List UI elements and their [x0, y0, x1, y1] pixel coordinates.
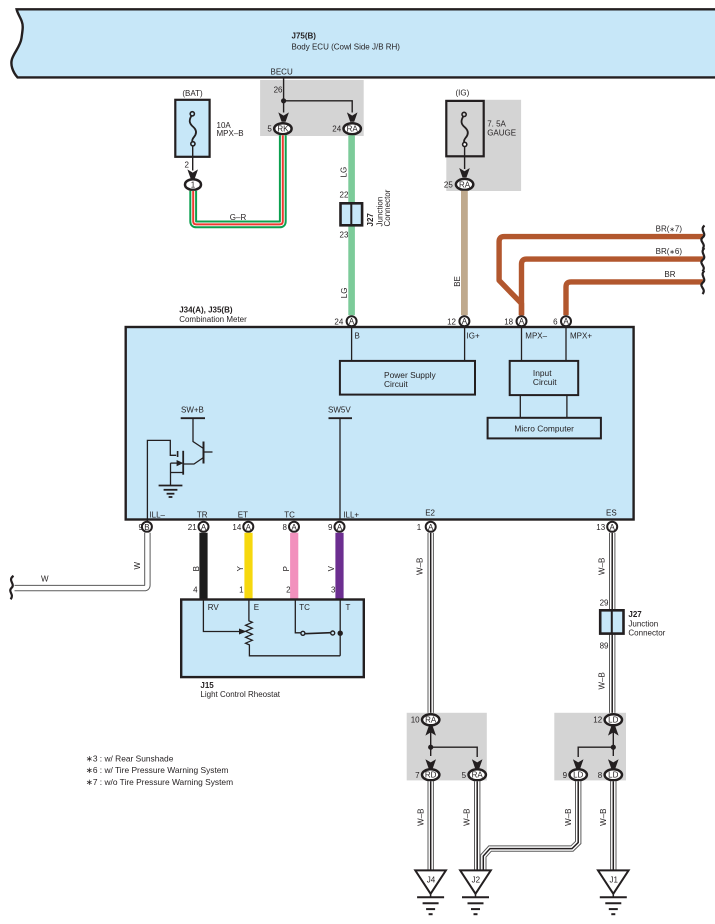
svg-text:A: A [563, 317, 569, 326]
wire 10RA to junction dot [430, 732, 432, 756]
svg-text:MPX–: MPX– [525, 331, 547, 340]
connector shade box (RA/RD/RA left) [407, 713, 487, 781]
svg-text:W–B: W–B [598, 558, 607, 575]
wire branch to 24 RA [284, 101, 353, 113]
svg-text:J34(A), J35(B): J34(A), J35(B) [179, 305, 233, 314]
switch contact circle T [331, 631, 335, 635]
svg-text:RA: RA [347, 125, 359, 134]
svg-text:1: 1 [239, 585, 244, 594]
arrow up into 12 LD [608, 726, 619, 735]
wire G-R from connector 1 to pin 5 RK [193, 135, 283, 224]
arrow up into 10 RA [425, 726, 436, 735]
svg-text:6: 6 [553, 317, 558, 326]
rheostat resistor zigzag [246, 600, 341, 656]
wire break squiggle BR [701, 271, 704, 294]
svg-text:5: 5 [267, 125, 272, 134]
wire LG from 24 RA to meter pin 24 [348, 135, 355, 315]
svg-text:MPX+: MPX+ [570, 331, 592, 340]
wire break squiggle BR(*6) [701, 248, 704, 271]
svg-text:MPX–B: MPX–B [217, 129, 244, 138]
wire BR [566, 282, 703, 315]
wire 12LD to junction dot [612, 732, 614, 756]
svg-text:9: 9 [139, 523, 144, 532]
pin 13 A (ES) [607, 522, 617, 532]
pin ellipse 5 RA [469, 769, 486, 780]
svg-text:E: E [254, 603, 259, 612]
MOSFET gate lead from ILL- [147, 440, 176, 521]
micro computer box [488, 418, 601, 439]
fuse box 7.5A GAUGE [446, 101, 483, 156]
svg-text:W–B: W–B [417, 809, 426, 826]
svg-text:12: 12 [447, 317, 456, 326]
ground J2 [460, 870, 491, 893]
junction dot right [611, 745, 616, 750]
wire Y from ET pin to J15 [244, 533, 252, 599]
connector shade box (LD right) [554, 713, 626, 781]
svg-text:∗6 : w/ Tire Pressure Warning: ∗6 : w/ Tire Pressure Warning System [86, 765, 229, 775]
svg-text:13: 13 [596, 523, 605, 532]
wire W from ILL- pin to left break [15, 533, 148, 588]
wire break squiggle BR(*7) [701, 226, 704, 249]
wire W-B 9LD jog to ground J2 [483, 781, 578, 870]
wire T vertical [339, 600, 341, 656]
pin 9 B (ILL-) [142, 522, 152, 532]
wire W-B from E2 pin to 10 RA [428, 533, 434, 713]
svg-text:A: A [462, 317, 468, 326]
svg-text:TR: TR [197, 511, 208, 520]
arrow into ellipse 1 [187, 169, 198, 178]
arrow into 5 RK [278, 112, 289, 121]
junction dot [281, 98, 286, 103]
svg-text:18: 18 [504, 317, 513, 326]
wire RV to wiper arrow [203, 600, 239, 632]
svg-text:B: B [144, 523, 149, 532]
pin ellipse 9 LD [570, 769, 587, 780]
arrow into 24 RA [347, 112, 358, 121]
svg-text:V: V [327, 565, 336, 571]
svg-text:LD: LD [573, 771, 583, 780]
switch contact circle TC [301, 631, 305, 635]
wire BECU vertical from band to junction [283, 78, 285, 112]
svg-text:RA: RA [425, 716, 437, 725]
svg-text:J27: J27 [366, 213, 375, 227]
svg-text:BR(∗7): BR(∗7) [656, 224, 683, 233]
svg-text:Light Control Rheostat: Light Control Rheostat [200, 690, 280, 699]
connector shade box (J75 pins RK/RA) [260, 80, 364, 136]
power supply circuit box [340, 361, 475, 395]
svg-text:(IG): (IG) [456, 89, 470, 98]
svg-text:2: 2 [185, 161, 190, 170]
svg-text:Circuit: Circuit [533, 377, 557, 387]
arrow down into 7 RD [425, 759, 436, 768]
svg-text:26: 26 [274, 85, 283, 94]
wire fuse to connector 1 [192, 146, 194, 171]
svg-text:J1: J1 [609, 876, 618, 885]
svg-text:29: 29 [600, 598, 609, 607]
svg-text:2: 2 [286, 585, 291, 594]
wire branch to 9 LD [578, 747, 613, 757]
svg-text:ES: ES [606, 509, 617, 518]
svg-text:A: A [349, 317, 355, 326]
svg-text:(BAT): (BAT) [182, 89, 203, 98]
svg-text:Y: Y [236, 565, 245, 571]
svg-text:A: A [428, 523, 434, 532]
svg-text:W: W [41, 575, 49, 584]
svg-text:1: 1 [191, 181, 196, 190]
svg-text:W–B: W–B [462, 809, 471, 826]
svg-text:22: 22 [340, 190, 349, 199]
arrow down into 8 LD [608, 759, 619, 768]
svg-text:7. 5A: 7. 5A [487, 120, 506, 129]
pin 14 A (ET) [243, 522, 253, 532]
svg-text:21: 21 [188, 523, 197, 532]
arrow into 25 RA [459, 168, 470, 177]
svg-text:14: 14 [232, 523, 241, 532]
svg-text:8: 8 [283, 523, 288, 532]
pin 1 A (E2) [426, 522, 436, 532]
wire W-B from ES pin down [609, 533, 615, 713]
svg-text:J27: J27 [628, 610, 642, 619]
svg-text:A: A [337, 523, 343, 532]
svg-text:LD: LD [608, 716, 618, 725]
svg-text:W–B: W–B [598, 672, 607, 689]
transistor Q (output) [203, 442, 205, 464]
svg-text:Combination Meter: Combination Meter [179, 315, 247, 324]
svg-text:RA: RA [459, 180, 471, 189]
svg-text:A: A [246, 523, 252, 532]
ground J1 [598, 870, 629, 893]
svg-text:24: 24 [332, 125, 341, 134]
ground J4 [415, 870, 446, 893]
fuse 10A MPX-B symbol [190, 112, 194, 116]
wire B from TR pin to J15 [199, 533, 207, 599]
pin ellipse 7 RD [422, 769, 439, 780]
svg-text:Circuit: Circuit [384, 379, 408, 389]
svg-text:RV: RV [208, 603, 220, 612]
wire SW5V to ILL+ pin [339, 418, 341, 519]
svg-text:BR: BR [664, 270, 675, 279]
wire TC to switch contact [295, 600, 301, 633]
svg-text:12: 12 [593, 716, 602, 725]
svg-text:RD: RD [425, 771, 437, 780]
svg-text:J4: J4 [427, 876, 436, 885]
svg-text:∗7 : w/o Tire Pressure Warning: ∗7 : w/o Tire Pressure Warning System [86, 777, 233, 787]
svg-text:B: B [355, 331, 360, 340]
svg-text:3: 3 [331, 585, 336, 594]
pin 8 A (TC) [289, 522, 299, 532]
svg-text:Connector: Connector [628, 628, 665, 637]
junction dot on T line [338, 631, 343, 636]
wire input circuit to micro computer right [566, 395, 568, 418]
wire BR(*7) [499, 237, 703, 316]
svg-text:A: A [291, 523, 297, 532]
svg-text:BECU: BECU [271, 68, 293, 77]
fuse symbol [462, 112, 466, 116]
ground (internal) [159, 485, 183, 487]
connector ellipse 1 [185, 179, 201, 190]
pin ellipse 8 LD [605, 769, 622, 780]
svg-text:Connector: Connector [383, 189, 392, 226]
pin ellipse RA (25) [456, 179, 473, 190]
pin ellipse RA [344, 123, 361, 134]
svg-text:TC: TC [299, 603, 310, 612]
wire fuse to 25 RA [464, 147, 466, 169]
svg-text:9: 9 [328, 523, 333, 532]
MOSFET symbol [177, 451, 179, 457]
svg-text:G–R: G–R [230, 213, 247, 222]
wire SW+B to transistor [193, 418, 204, 448]
svg-text:24: 24 [334, 317, 343, 326]
svg-text:Junction: Junction [628, 619, 658, 628]
svg-text:10: 10 [411, 716, 420, 725]
input circuit box [510, 361, 579, 395]
svg-text:J2: J2 [472, 876, 481, 885]
svg-text:B: B [192, 566, 201, 571]
pin 9 A (ILL+) [335, 522, 345, 532]
wire BR(*6) [522, 259, 704, 315]
junction connector J27 (22/23) [341, 203, 363, 225]
svg-text:A: A [201, 523, 207, 532]
wire W-B 5RA to ground J2 [474, 781, 480, 870]
svg-text:LG: LG [340, 167, 349, 178]
svg-text:ET: ET [238, 511, 248, 520]
svg-text:8: 8 [598, 771, 603, 780]
svg-text:W–B: W–B [416, 558, 425, 575]
svg-text:P: P [282, 566, 291, 571]
svg-text:89: 89 [600, 642, 609, 651]
svg-text:A: A [610, 523, 616, 532]
junction dot left [428, 745, 433, 750]
svg-text:E2: E2 [425, 509, 435, 518]
svg-text:W: W [133, 562, 142, 570]
wire P from TC pin to J15 [290, 533, 298, 599]
svg-text:A: A [519, 317, 525, 326]
wire break squiggle W [10, 576, 13, 600]
switch blade [305, 633, 331, 634]
wire branch to 5 RA [431, 747, 478, 757]
svg-text:SW5V: SW5V [328, 406, 351, 415]
wire pin24 to power supply circuit [351, 327, 353, 361]
wire input circuit to micro computer left [519, 395, 521, 418]
arrow down into 5 RA [472, 759, 483, 768]
fuse shade box (IG) [446, 100, 521, 191]
svg-text:LD: LD [608, 771, 618, 780]
svg-text:J75(B): J75(B) [292, 32, 317, 41]
svg-text:T: T [346, 603, 351, 612]
svg-text:BE: BE [453, 276, 462, 287]
svg-text:Body ECU (Cowl Side J/B RH): Body ECU (Cowl Side J/B RH) [292, 43, 401, 52]
wire W-B 7RD to ground J4 [428, 781, 434, 870]
svg-text:1: 1 [417, 523, 422, 532]
svg-text:23: 23 [340, 231, 349, 240]
svg-text:BR(∗6): BR(∗6) [656, 247, 683, 256]
svg-text:J15: J15 [200, 681, 214, 690]
svg-text:IG+: IG+ [467, 331, 480, 340]
pin 21 A (TR) [199, 522, 209, 532]
pin ellipse 10 RA [422, 714, 439, 725]
wire BE from 25 RA to meter pin 12 [461, 191, 468, 315]
svg-text:7: 7 [415, 771, 420, 780]
svg-text:4: 4 [193, 585, 198, 594]
svg-text:W–B: W–B [564, 809, 573, 826]
svg-text:RK: RK [277, 125, 289, 134]
wire pin6 to input circuit [565, 327, 567, 361]
svg-text:ILL+: ILL+ [343, 511, 359, 520]
wiper arrow into rheostat [239, 629, 247, 635]
arrow down into 9 LD [573, 759, 584, 768]
wire V from ILL+ pin to J15 [335, 533, 343, 599]
svg-text:LG: LG [340, 288, 349, 299]
wire pin18 to input circuit [521, 327, 523, 361]
svg-text:TC: TC [284, 511, 295, 520]
svg-text:5: 5 [462, 771, 467, 780]
svg-text:25: 25 [444, 181, 453, 190]
svg-text:SW+B: SW+B [181, 406, 204, 415]
bus band J75(B) Body ECU (Cowl Side J/B RH) [11, 9, 715, 77]
pin ellipse 12 LD [605, 714, 622, 725]
pin ellipse RK [274, 123, 291, 134]
light control rheostat J15 box [181, 600, 364, 678]
wire pin12 to power supply circuit [464, 327, 466, 361]
svg-text:RA: RA [472, 771, 484, 780]
svg-text:9: 9 [563, 771, 568, 780]
svg-text:Micro Computer: Micro Computer [514, 424, 574, 434]
svg-text:ILL–: ILL– [149, 511, 165, 520]
junction connector J27 (29/89) [600, 610, 623, 633]
wire W-B 8LD to ground J1 [610, 781, 616, 870]
svg-text:GAUGE: GAUGE [487, 129, 516, 138]
svg-text:∗3 : w/ Rear Sunshade: ∗3 : w/ Rear Sunshade [86, 753, 174, 763]
svg-text:W–B: W–B [599, 809, 608, 826]
